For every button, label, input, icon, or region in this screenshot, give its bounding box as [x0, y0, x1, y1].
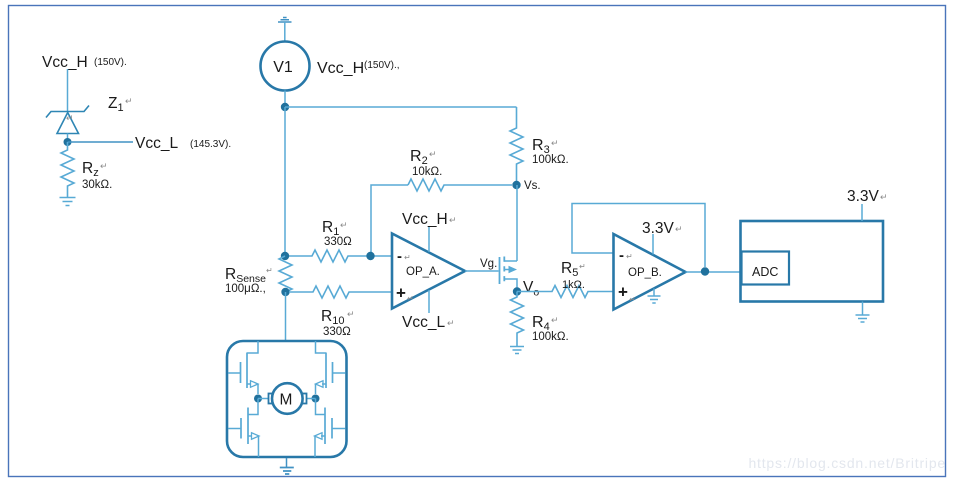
svg-text:↵: ↵: [629, 295, 636, 304]
label R1 330: [322, 219, 352, 248]
transistor Q3 top-right: [316, 341, 346, 394]
wire RSense bottom to H-bridge: [285, 292, 287, 341]
label R4 100k: [532, 314, 569, 343]
label Vcc_H (150V) near V1: [317, 60, 400, 77]
label R2 10k: [410, 148, 442, 178]
svg-text:3.3V: 3.3V: [642, 220, 675, 237]
resistor R1: [289, 250, 392, 262]
transistor Q2 top-left: [228, 341, 258, 394]
transistor Q4 bottom-left: [228, 399, 259, 458]
svg-text:Vg.: Vg.: [480, 258, 497, 270]
svg-text:↵: ↵: [429, 149, 437, 159]
svg-text:330Ω: 330Ω: [323, 326, 351, 338]
svg-text:ADC: ADC: [752, 265, 778, 279]
node RSense top: [281, 252, 289, 260]
wire drain to Vs: [516, 185, 518, 261]
svg-text:↵: ↵: [407, 294, 414, 303]
wire Vcc_L: [68, 141, 134, 143]
svg-text:1kΩ.: 1kΩ.: [562, 279, 585, 291]
resistor R10: [289, 286, 392, 298]
svg-text:↵: ↵: [675, 224, 683, 234]
wire Vcc_H lead: [67, 69, 69, 111]
svg-text:Vcc_H: Vcc_H: [402, 211, 448, 228]
ground below H-bridge: [280, 458, 294, 474]
svg-text:M: M: [280, 392, 293, 409]
svg-text:↵: ↵: [579, 262, 586, 271]
ADC block: [741, 221, 884, 302]
label RSense 100u: [225, 266, 273, 295]
svg-text:↵: ↵: [626, 252, 633, 261]
transistor Q1 MOSFET: [500, 257, 518, 292]
ADC ground: [856, 302, 870, 323]
svg-text:(150V).: (150V).: [94, 57, 127, 68]
resistor R5 with wires: [517, 286, 613, 298]
wire OP_B feedback: [572, 204, 705, 268]
label R10 330: [321, 308, 355, 338]
label Rz 30k: [82, 160, 112, 191]
svg-text:↵: ↵: [340, 220, 348, 230]
svg-text:Vcc_H: Vcc_H: [317, 60, 364, 77]
node minus junction dot: [366, 252, 374, 260]
resistor Rz: [61, 142, 74, 197]
svg-text:V1: V1: [273, 59, 293, 76]
wire zener to node: [67, 134, 69, 142]
svg-text:↵: ↵: [447, 318, 455, 328]
svg-text:10kΩ.: 10kΩ.: [412, 166, 442, 178]
svg-text:OP_A.: OP_A.: [406, 266, 440, 278]
node Vs: [512, 180, 540, 192]
svg-text:(145.3V).: (145.3V).: [190, 139, 231, 150]
ground below R4: [510, 347, 524, 354]
label Z1: [108, 95, 133, 114]
svg-text:100kΩ.: 100kΩ.: [532, 331, 569, 343]
svg-text:↵: ↵: [125, 96, 133, 106]
svg-text:-: -: [397, 248, 402, 265]
zener diode Z1: [46, 106, 89, 134]
wire V1 to node A: [284, 91, 286, 108]
op-amp U2 3.3V pin: [642, 220, 683, 255]
svg-text:+: +: [618, 283, 628, 302]
label Vcc_L (145.3V): [135, 135, 231, 152]
ground above V1: [278, 18, 292, 42]
label R3 100k: [532, 137, 569, 166]
resistor RSense: [279, 256, 292, 292]
svg-text:↵: ↵: [551, 138, 559, 148]
svg-text:↵: ↵: [66, 113, 74, 123]
svg-text:↵: ↵: [100, 161, 108, 171]
node RSense bottom: [281, 288, 289, 296]
wire OP_B output to ADC: [686, 271, 741, 273]
svg-text:↵: ↵: [266, 266, 273, 275]
op-amp U1 OP_A: [392, 234, 465, 309]
svg-text:-: -: [619, 247, 624, 264]
op-amp U2 ground: [648, 289, 661, 304]
wire OP_A output to gate: [465, 270, 499, 272]
svg-text:↵: ↵: [404, 253, 411, 262]
svg-text:↵: ↵: [347, 309, 355, 319]
node bridge left: [254, 395, 268, 403]
label Vcc_H (150V) left: [42, 54, 127, 71]
svg-text:+: +: [396, 284, 406, 303]
svg-text:https://blog.csdn.net/Britripe: https://blog.csdn.net/Britripe: [748, 455, 946, 471]
transistor Q5 bottom-right: [315, 399, 346, 458]
svg-text:↵: ↵: [880, 192, 888, 202]
label Vcc_L pin: [402, 314, 455, 331]
svg-text:↵: ↵: [449, 215, 457, 225]
svg-text:100kΩ.: 100kΩ.: [532, 154, 569, 166]
svg-text:Vcc_L: Vcc_L: [402, 314, 445, 331]
watermark: [748, 455, 946, 471]
label Vg: [480, 258, 497, 270]
ADC 3.3V pin: [847, 188, 888, 221]
svg-text:330Ω: 330Ω: [324, 236, 352, 248]
resistor R4: [511, 292, 524, 347]
node Vcc_L junction: [64, 138, 72, 146]
op-amp U2 OP_B: [614, 234, 686, 310]
wire top rail to R3: [285, 106, 517, 108]
svg-text:100μΩ.,: 100μΩ.,: [225, 283, 266, 295]
resistor R2 with feedback wires: [371, 179, 512, 256]
ground below Rz: [60, 198, 76, 206]
node bridge right: [307, 395, 320, 403]
svg-text:↵: ↵: [551, 315, 559, 325]
wire node A down to RSense: [284, 107, 286, 252]
svg-text:Vs.: Vs.: [524, 180, 541, 192]
node output junction: [701, 267, 709, 275]
op-amp U1 power pins: [428, 227, 430, 313]
svg-text:Vcc_H: Vcc_H: [42, 54, 88, 71]
svg-text:3.3V: 3.3V: [847, 188, 880, 205]
svg-text:Vcc_L: Vcc_L: [135, 135, 178, 152]
node Vo: [513, 279, 540, 299]
svg-text:OP_B.: OP_B.: [628, 267, 662, 279]
svg-text:(150V).,: (150V).,: [364, 60, 400, 71]
resistor R3: [510, 107, 523, 181]
label R5 1k: [561, 260, 586, 291]
voltage source V1: [261, 42, 310, 91]
motor M: [269, 383, 307, 414]
H-bridge block: [227, 341, 347, 457]
label Vcc_H pin: [402, 211, 457, 228]
svg-text:30kΩ.: 30kΩ.: [82, 179, 112, 191]
node A junction below V1: [281, 103, 289, 111]
